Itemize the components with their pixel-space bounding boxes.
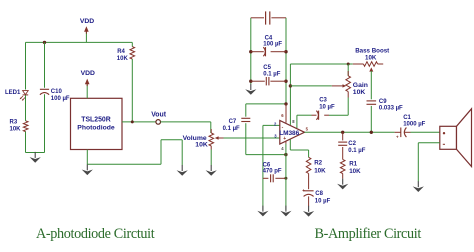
svg-text:LED1: LED1 <box>5 90 21 96</box>
svg-text:10K: 10K <box>365 54 377 61</box>
svg-text:VDD: VDD <box>81 70 95 77</box>
svg-text:C10: C10 <box>51 89 63 95</box>
svg-text:100 µF: 100 µF <box>51 96 70 102</box>
svg-text:10K: 10K <box>349 168 361 175</box>
svg-text:10K: 10K <box>10 126 22 132</box>
svg-text:R4: R4 <box>117 49 125 55</box>
svg-text:R2: R2 <box>314 160 322 167</box>
svg-text:10 µF: 10 µF <box>319 105 335 111</box>
svg-text:10K: 10K <box>353 89 366 96</box>
svg-text:C9: C9 <box>379 99 387 105</box>
svg-text:VDD: VDD <box>80 18 94 25</box>
svg-text:A-photodiode Circtuit: A-photodiode Circtuit <box>36 226 155 242</box>
svg-text:0.1 µF: 0.1 µF <box>263 72 280 78</box>
svg-text:10 µF: 10 µF <box>315 198 331 204</box>
svg-text:C8: C8 <box>315 191 323 197</box>
svg-text:470 pF: 470 pF <box>263 169 282 175</box>
svg-text:C2: C2 <box>348 141 356 147</box>
svg-text:100 µF: 100 µF <box>263 42 282 48</box>
svg-text:0.033 µF: 0.033 µF <box>379 106 403 112</box>
svg-text:C7: C7 <box>229 119 237 125</box>
svg-text:TSL250R: TSL250R <box>81 116 111 123</box>
svg-text:10K: 10K <box>117 56 129 62</box>
svg-text:C3: C3 <box>319 98 327 104</box>
svg-text:10K: 10K <box>195 142 208 149</box>
svg-text:10K: 10K <box>314 168 326 175</box>
svg-text:C1: C1 <box>403 115 411 121</box>
svg-text:Vout: Vout <box>151 112 167 119</box>
svg-text:C6: C6 <box>263 163 271 169</box>
svg-text:+: + <box>396 135 399 140</box>
svg-text:Gain: Gain <box>353 82 368 89</box>
svg-text:+: + <box>302 188 305 193</box>
svg-text:R3: R3 <box>10 119 18 125</box>
svg-text:0.1 µF: 0.1 µF <box>223 126 240 132</box>
svg-text:R1: R1 <box>349 161 357 168</box>
svg-text:Photodiode: Photodiode <box>77 124 115 131</box>
svg-text:B-Amplifier Circuit: B-Amplifier Circuit <box>315 226 422 242</box>
svg-text:C5: C5 <box>263 65 271 71</box>
svg-text:C4: C4 <box>265 35 273 41</box>
svg-text:1000 µF: 1000 µF <box>403 121 425 127</box>
svg-text:0.1 µF: 0.1 µF <box>348 148 365 154</box>
